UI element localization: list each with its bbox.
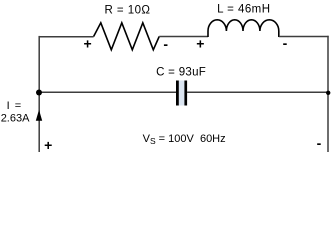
current label: I = — [7, 100, 23, 112]
node: right junction dot — [326, 91, 330, 95]
svg-text:+: + — [196, 36, 204, 52]
polarity label: + bottom left — [44, 137, 52, 153]
capacitor C left plate — [176, 81, 179, 106]
svg-text:C = 93uF: C = 93uF — [156, 66, 206, 78]
polarity label: + left of resistor — [84, 36, 92, 52]
value label: R = 10Ω — [105, 4, 151, 16]
polarity label: + left of inductor — [196, 36, 204, 52]
value label: L = 46mH — [217, 4, 270, 16]
svg-text:I =: I = — [7, 100, 23, 112]
wire: left vertical (top-left corner down to bottom edge) — [38, 36, 40, 152]
wire: inductor to top-right corner — [279, 36, 329, 38]
value label: C = 93uF — [156, 66, 206, 78]
current arrow I (upward) — [36, 110, 42, 121]
svg-text:2.63A: 2.63A — [1, 112, 30, 124]
svg-text:L = 46mH: L = 46mH — [217, 4, 270, 16]
svg-text:-: - — [283, 35, 288, 51]
polarity label: - right of inductor — [283, 35, 288, 51]
polarity label: - right of resistor — [163, 36, 168, 52]
svg-text:R = 10Ω: R = 10Ω — [105, 4, 151, 16]
svg-text:+: + — [84, 36, 92, 52]
svg-text:+: + — [44, 137, 52, 152]
node: left junction dot — [36, 90, 42, 96]
wire: top-left horizontal to resistor — [39, 36, 94, 38]
current label: 2.63A — [1, 112, 30, 124]
svg-text:VS = 100V 60Hz: VS = 100V 60Hz — [143, 133, 226, 146]
svg-text:-: - — [317, 135, 322, 151]
capacitor C right plate — [184, 81, 187, 106]
capacitor C dielectric fill — [179, 81, 185, 106]
wire: capacitor to right vertical — [187, 91, 328, 93]
inductor L — [208, 20, 279, 37]
polarity label: - bottom right — [317, 135, 322, 151]
wire: between resistor and inductor — [159, 36, 208, 38]
svg-text:-: - — [163, 36, 168, 52]
wire: right vertical (top-right corner down to bottom edge) — [327, 36, 329, 152]
wire: middle branch left (node A to capacitor) — [39, 91, 176, 93]
source label: Vs = 100V 60Hz — [143, 133, 226, 146]
resistor R — [94, 23, 160, 50]
